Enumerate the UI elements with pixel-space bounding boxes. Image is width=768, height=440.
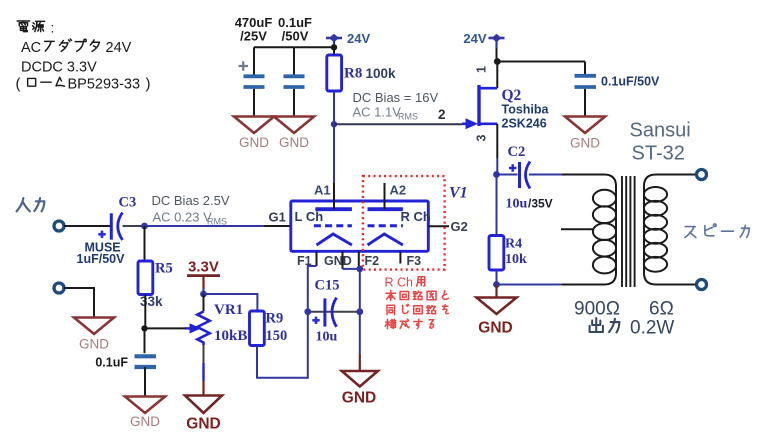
- label GND VR1: [186, 416, 220, 433]
- capacitor 0.1uF bottom plates: [135, 356, 157, 367]
- label pin 2: [438, 107, 446, 122]
- wire VR1 bottom lead: [203, 345, 205, 396]
- svg-text:AC 1.1V: AC 1.1V: [353, 105, 402, 120]
- label 0.1uF/50V right: [601, 75, 660, 89]
- svg-text:R8: R8: [344, 66, 362, 82]
- junction grid node: [141, 223, 148, 230]
- wire bypass cap bottom lead: [584, 89, 586, 117]
- label GND bypass: [570, 136, 600, 151]
- svg-text:R9: R9: [266, 311, 284, 327]
- svg-text:1: 1: [475, 66, 489, 73]
- junction VR1 top node: [200, 291, 207, 298]
- terminal speaker bottom: [697, 280, 707, 290]
- transformer core: [622, 176, 635, 287]
- annotation box R channel: [363, 176, 445, 270]
- wire R5 bottom lead: [144, 295, 146, 329]
- svg-text:RMS: RMS: [398, 112, 418, 122]
- red note line3: [387, 304, 448, 314]
- svg-text:/25V: /25V: [240, 28, 267, 43]
- wire transformer bottom return: [497, 284, 564, 286]
- wire F2 lead: [358, 251, 360, 269]
- wire R8 top stub: [333, 47, 335, 55]
- wire 24V to drain node: [495, 41, 497, 62]
- label F2: [365, 254, 380, 268]
- label G1: [269, 210, 286, 225]
- red note line2: [386, 291, 448, 301]
- transformer center tap stub: [561, 228, 594, 230]
- svg-text:): ): [146, 76, 151, 93]
- svg-text:100k: 100k: [366, 66, 397, 81]
- svg-text:GND: GND: [279, 135, 309, 150]
- svg-text:/35V: /35V: [528, 197, 553, 211]
- svg-text:3.3V: 3.3V: [188, 259, 219, 276]
- svg-text:Sansui: Sansui: [630, 120, 691, 142]
- svg-text:(: (: [16, 76, 21, 93]
- resistor R9: [250, 311, 265, 346]
- wire grid node to G1: [145, 225, 291, 227]
- tube V1 envelope: [291, 201, 429, 251]
- capacitor 470uF plates: [244, 76, 265, 87]
- wire 470uF bottom lead: [253, 89, 255, 117]
- svg-text:A1: A1: [314, 182, 331, 197]
- capacitor C15: [312, 298, 336, 327]
- ground 0.1uF: [274, 117, 314, 134]
- svg-text:0.2W: 0.2W: [630, 318, 674, 339]
- wire 24V rail horizontal: [254, 46, 334, 48]
- svg-text:R Ch: R Ch: [401, 209, 431, 224]
- label pin 3: [475, 135, 489, 142]
- potentiometer VR1: [185, 312, 210, 346]
- red note line1: [385, 276, 425, 290]
- label speaker japanese: [685, 224, 749, 238]
- label output 0.2W: [590, 318, 675, 339]
- label 10k: [505, 252, 527, 267]
- label 10kB: [214, 328, 247, 344]
- label GND pin: [324, 254, 352, 268]
- svg-text:A2: A2: [390, 182, 407, 197]
- terminal speaker top: [697, 170, 707, 180]
- label C2: [508, 144, 526, 160]
- ground input: [74, 318, 114, 335]
- wire input to C3: [64, 225, 110, 227]
- wire 0.1uF top lead: [293, 47, 295, 74]
- wire R9 bottom to C15 node: [257, 315, 308, 378]
- label 0.1uF bottom: [95, 356, 128, 370]
- svg-text:F2: F2: [365, 254, 380, 268]
- wire grid node to R5: [144, 226, 146, 261]
- label C3: [119, 195, 137, 211]
- wire VR1 top lead: [203, 294, 205, 312]
- label pin 1: [475, 66, 489, 73]
- tube grid left: [314, 224, 352, 227]
- label 6 ohm: [649, 299, 674, 320]
- wire gate node 2: [334, 123, 462, 125]
- label GND 0.1uF: [279, 135, 309, 150]
- capacitor 0.1uF plates: [284, 76, 305, 87]
- label F1: [297, 254, 312, 268]
- text Rohm BP5293-33: [16, 76, 151, 93]
- wire R8 bottom lead: [333, 91, 335, 124]
- wire input gnd: [64, 288, 94, 318]
- wire F1 lead: [308, 251, 317, 311]
- svg-text:DCDC 3.3V: DCDC 3.3V: [21, 60, 97, 76]
- svg-text:10u: 10u: [506, 197, 528, 212]
- svg-text:33k: 33k: [140, 294, 163, 309]
- wire node to R9 top: [204, 294, 258, 311]
- svg-text:G2: G2: [451, 219, 468, 234]
- text AC 0.23 Vrms: [153, 209, 228, 226]
- wire C3 to grid node: [123, 225, 145, 227]
- label MUSE 1uF/50V: [77, 241, 126, 267]
- ground bypass cap: [565, 117, 605, 134]
- resistor R4: [489, 236, 504, 271]
- label 150: [266, 328, 288, 344]
- label VR1: [214, 302, 243, 318]
- svg-text:6Ω: 6Ω: [649, 299, 674, 320]
- svg-text:GND: GND: [324, 254, 352, 268]
- label A2: [390, 182, 407, 197]
- wire 3.3V to node: [202, 288, 204, 294]
- wire source vertical: [496, 124, 498, 175]
- wire F3 stub: [399, 251, 401, 263]
- svg-text:BP5293-33: BP5293-33: [68, 77, 141, 93]
- label R4: [505, 237, 522, 252]
- power port 24V top: [326, 34, 342, 47]
- svg-text:/50V: /50V: [282, 28, 309, 43]
- wire drain vertical: [496, 62, 498, 89]
- svg-text:GND: GND: [130, 414, 160, 429]
- transformer primary winding: [562, 175, 616, 285]
- text AC adapter 24V: [21, 39, 132, 56]
- label V1: [449, 185, 468, 202]
- label Toshiba 2SK246: [502, 103, 550, 131]
- svg-text:DC Bias = 16V: DC Bias = 16V: [353, 90, 439, 105]
- svg-text:R4: R4: [505, 237, 522, 252]
- label R9: [266, 311, 284, 327]
- svg-text:150: 150: [266, 328, 288, 344]
- text AC 1.1Vrms: [353, 105, 419, 122]
- red note line4: [385, 319, 434, 329]
- junction R5 bottom node: [141, 325, 147, 331]
- wire source node to C2: [497, 174, 518, 176]
- wire anode A1 lead: [333, 124, 335, 209]
- capacitor 0.1uF/50V plates: [575, 76, 597, 87]
- label A1: [314, 182, 331, 197]
- label F3: [407, 254, 422, 268]
- label GND R4: [478, 320, 512, 337]
- svg-text:R Ch: R Ch: [385, 276, 414, 290]
- wire G2 stub: [428, 225, 449, 227]
- svg-text:GND: GND: [478, 320, 512, 337]
- wire gnd node down: [359, 269, 361, 371]
- wire wiper from R5 node: [145, 327, 187, 329]
- svg-text:VR1: VR1: [214, 302, 243, 318]
- text DCDC 3.3V: [21, 60, 97, 76]
- capacitor C2: [509, 162, 530, 189]
- transistor Q2 JFET symbol: [462, 85, 497, 129]
- svg-text:V1: V1: [449, 185, 468, 202]
- label 33k: [140, 294, 163, 309]
- label L Ch: [295, 209, 324, 224]
- label R8: [344, 66, 362, 82]
- wire 0.1uF-b bottom lead: [144, 367, 146, 397]
- wire 0.1uF-b top lead: [144, 328, 146, 353]
- text DC Bias 2.5V: [152, 193, 230, 208]
- label GND 0.1uF bottom: [130, 414, 160, 429]
- label R Ch: [401, 209, 431, 224]
- label Q2: [502, 87, 522, 104]
- svg-text:C15: C15: [315, 278, 340, 294]
- wire C2 to transformer: [529, 174, 563, 176]
- svg-text:GND: GND: [186, 416, 220, 433]
- svg-text:Q2: Q2: [502, 87, 522, 104]
- svg-text:0.1uF: 0.1uF: [95, 356, 128, 370]
- svg-text:C3: C3: [119, 195, 137, 211]
- svg-text:Toshiba: Toshiba: [502, 103, 550, 117]
- svg-text:L Ch: L Ch: [295, 209, 324, 224]
- svg-text:G1: G1: [269, 210, 286, 225]
- svg-text::: :: [51, 20, 55, 36]
- tube plate left: [315, 207, 352, 211]
- svg-text:10kB: 10kB: [214, 328, 247, 344]
- ground 470uF: [234, 117, 274, 134]
- junction Q2 source node: [493, 171, 500, 178]
- svg-text:1uF/50V: 1uF/50V: [77, 252, 126, 266]
- net label 24V top: [347, 31, 370, 46]
- terminal input gnd: [54, 283, 64, 293]
- label 10u 35V: [506, 197, 553, 212]
- tube filament left: [317, 234, 352, 245]
- wire tube gnd pin lead: [343, 251, 360, 269]
- resistor R5: [138, 261, 153, 295]
- svg-text:RMS: RMS: [207, 216, 227, 226]
- svg-text:10k: 10k: [505, 252, 527, 267]
- svg-text:3: 3: [475, 135, 489, 142]
- svg-text:24V: 24V: [463, 31, 486, 46]
- svg-text:R5: R5: [155, 261, 173, 277]
- wire R4 gnd stub: [495, 285, 497, 298]
- wire 0.1uF bottom lead: [293, 89, 295, 117]
- svg-text:AC 0.23 V: AC 0.23 V: [153, 209, 213, 224]
- wire R4 top lead: [496, 175, 498, 236]
- svg-text:GND: GND: [342, 390, 376, 407]
- power port 3.3V: [187, 259, 220, 289]
- resistor R8: [327, 55, 342, 91]
- svg-text:0.1uF/50V: 0.1uF/50V: [601, 75, 660, 89]
- label input japanese: [17, 198, 45, 211]
- tube grid right: [368, 224, 403, 227]
- junction C15 right: [356, 308, 363, 315]
- junction F2 gnd node: [356, 266, 363, 273]
- text power source header: [17, 20, 54, 36]
- label C15: [315, 278, 340, 294]
- terminal input: [54, 221, 64, 231]
- svg-text:F3: F3: [407, 254, 422, 268]
- wire drain node to bypass cap: [497, 61, 585, 63]
- svg-text:AC: AC: [21, 40, 41, 56]
- svg-text:24V: 24V: [106, 40, 132, 56]
- label GND tube: [342, 390, 376, 407]
- ground 0.1uF bottom: [125, 397, 165, 414]
- svg-text:24V: 24V: [347, 31, 370, 46]
- wire C15 crossbar: [308, 311, 360, 313]
- wire 470uF top lead: [253, 47, 255, 74]
- label Sansui ST-32: [630, 120, 691, 165]
- junction 24V rail: [331, 44, 337, 50]
- svg-text:10u: 10u: [316, 330, 338, 345]
- junction R4 transformer node: [493, 281, 500, 288]
- junction C15 left: [304, 308, 311, 315]
- label 470uF/25V: [235, 15, 273, 43]
- label 100k: [366, 66, 397, 81]
- svg-text:900Ω: 900Ω: [574, 299, 620, 320]
- ground VR1: [185, 396, 222, 414]
- label GND 470uF: [239, 135, 269, 150]
- junction Q2 drain node: [494, 58, 501, 65]
- wire bypass cap top lead: [584, 62, 586, 75]
- tube plate right: [368, 207, 403, 211]
- svg-text:DC Bias 2.5V: DC Bias 2.5V: [152, 193, 230, 208]
- text DC Bias 16V: [353, 90, 439, 105]
- svg-text:C2: C2: [508, 144, 526, 160]
- tube filament right: [368, 234, 403, 245]
- label GND input: [79, 337, 109, 352]
- wire R4 bottom lead: [496, 270, 498, 285]
- svg-text:2SK246: 2SK246: [502, 117, 547, 131]
- svg-text:GND: GND: [570, 136, 600, 151]
- transformer secondary winding: [644, 175, 697, 285]
- label 10u: [316, 330, 338, 345]
- ground tube center: [342, 371, 378, 387]
- svg-text:2: 2: [438, 107, 446, 122]
- junction R8 gate node: [331, 121, 337, 127]
- svg-text:ST-32: ST-32: [632, 143, 685, 165]
- capacitor C3: [98, 213, 122, 241]
- label R5: [155, 261, 173, 277]
- label 900 ohm: [574, 299, 620, 320]
- svg-text:GND: GND: [239, 135, 269, 150]
- label G2: [451, 219, 468, 234]
- svg-text:GND: GND: [79, 337, 109, 352]
- power port 24V Q2: [463, 31, 504, 46]
- label 0.1uF/50V: [278, 15, 312, 43]
- ground R4: [477, 298, 517, 315]
- plus sign 470uF: [239, 61, 249, 70]
- wire anode A2 stub: [384, 183, 386, 209]
- svg-text:F1: F1: [297, 254, 312, 268]
